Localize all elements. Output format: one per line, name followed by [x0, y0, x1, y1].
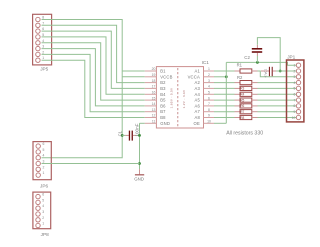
- svg-text:2: 2: [208, 73, 210, 77]
- svg-text:6: 6: [208, 96, 210, 100]
- pin names right: [188, 69, 201, 126]
- svg-text:B6: B6: [160, 103, 166, 108]
- svg-text:3: 3: [208, 79, 210, 83]
- resistor R5: [214, 98, 296, 102]
- capacitor C1 series (near JP1): [261, 67, 296, 76]
- svg-text:2: 2: [43, 165, 45, 169]
- pin numbers right: [207, 67, 211, 123]
- svg-text:19: 19: [152, 73, 156, 77]
- svg-text:1: 1: [43, 171, 45, 175]
- svg-text:IC1: IC1: [202, 60, 210, 65]
- resistor R6: [214, 104, 296, 108]
- svg-text:R5: R5: [240, 98, 244, 102]
- resistor R2: [214, 81, 296, 85]
- wire A1 jog to JP1 pin3: [258, 71, 297, 77]
- pin numbers left: [152, 67, 156, 123]
- svg-text:3: 3: [42, 210, 44, 214]
- svg-text:R4: R4: [240, 93, 244, 97]
- svg-text:9: 9: [208, 114, 210, 118]
- wire JP6.3 to GND node: [42, 163, 140, 165]
- svg-text:R7: R7: [240, 110, 244, 114]
- svg-text:2: 2: [42, 216, 44, 220]
- pin stubs right 1..10: [204, 70, 215, 72]
- svg-text:4: 4: [42, 39, 44, 43]
- svg-text:7: 7: [293, 98, 295, 102]
- svg-text:OE: OE: [194, 121, 200, 126]
- wire JP5.2 to IC B7: [42, 54, 145, 111]
- svg-text:17: 17: [152, 85, 156, 89]
- svg-text:3: 3: [293, 75, 295, 79]
- svg-text:B3: B3: [160, 86, 166, 91]
- wire OE pin10: [214, 122, 226, 124]
- svg-text:1: 1: [42, 56, 44, 60]
- svg-text:R6: R6: [240, 104, 244, 108]
- svg-text:VCCA: VCCA: [188, 74, 200, 79]
- svg-text:B4: B4: [160, 92, 166, 97]
- svg-text:4: 4: [43, 154, 45, 158]
- svg-text:1: 1: [42, 222, 44, 226]
- svg-text:B7: B7: [160, 109, 166, 114]
- svg-text:10: 10: [207, 120, 211, 124]
- node C2 to A1 junction: [279, 70, 282, 73]
- wire JP5.1 to IC B8: [42, 60, 145, 117]
- connector JP1: [287, 60, 304, 122]
- svg-text:10: 10: [292, 116, 296, 120]
- svg-text:GND: GND: [160, 121, 170, 126]
- svg-text:1.65V - 5.5V: 1.65V - 5.5V: [170, 87, 174, 108]
- svg-text:14: 14: [152, 102, 156, 106]
- svg-text:A4: A4: [194, 92, 200, 97]
- svg-text:JP1: JP1: [287, 55, 295, 60]
- wire JP5.7 to IC B2: [42, 25, 145, 82]
- svg-text:A1: A1: [194, 69, 200, 74]
- svg-text:12: 12: [152, 114, 156, 118]
- svg-text:3: 3: [43, 160, 45, 164]
- connector JP5: [33, 14, 52, 65]
- ground: [134, 169, 144, 181]
- svg-text:11: 11: [152, 120, 156, 124]
- svg-text:All resistors 330: All resistors 330: [226, 130, 263, 136]
- connector JP8: [33, 192, 51, 229]
- svg-text:15: 15: [152, 96, 156, 100]
- svg-text:B1: B1: [160, 69, 166, 74]
- wire GND vertical: [139, 123, 141, 169]
- capacitor C2: [252, 38, 280, 71]
- wire VCCA to junction: [214, 76, 226, 78]
- resistor R3: [214, 86, 296, 90]
- svg-text:5: 5: [42, 198, 44, 202]
- svg-text:R2: R2: [237, 75, 243, 80]
- svg-text:18: 18: [152, 79, 156, 83]
- svg-text:6: 6: [42, 193, 44, 197]
- svg-text:JP8: JP8: [41, 232, 49, 237]
- svg-text:JP6: JP6: [40, 183, 48, 188]
- IC U1 (IC1 level translator): [145, 67, 214, 128]
- svg-text:6: 6: [43, 142, 45, 146]
- svg-text:A7: A7: [194, 109, 200, 114]
- svg-text:2: 2: [293, 69, 295, 73]
- wire VCCB pin19: [122, 76, 145, 78]
- svg-text:VCCB: VCCB: [160, 74, 172, 79]
- svg-text:C2: C2: [244, 55, 250, 60]
- svg-text:R8: R8: [240, 116, 244, 120]
- svg-text:5: 5: [43, 148, 45, 152]
- wire into IC pin20: [122, 70, 145, 72]
- svg-text:7: 7: [42, 21, 44, 25]
- node GND junction JP6.3: [138, 162, 141, 165]
- svg-text:B5: B5: [160, 98, 166, 103]
- svg-text:1: 1: [208, 67, 210, 71]
- svg-text:5: 5: [293, 87, 295, 91]
- wire JP5.4 to IC B5: [42, 43, 145, 100]
- wire VCCA to JP1 pin1: [226, 62, 296, 65]
- connector JP6: [33, 142, 51, 180]
- resistor R8: [214, 115, 296, 119]
- node VCCB junction at C1: [121, 134, 124, 137]
- svg-text:A3: A3: [194, 86, 200, 91]
- pin names left: [160, 69, 172, 126]
- svg-text:C1: C1: [264, 68, 268, 72]
- svg-text:JP5: JP5: [40, 66, 48, 71]
- svg-text:4: 4: [293, 81, 295, 85]
- svg-text:1.2V - 3.6V: 1.2V - 3.6V: [182, 89, 186, 108]
- svg-text:13: 13: [152, 108, 156, 112]
- svg-text:4: 4: [208, 85, 210, 89]
- svg-text:3: 3: [42, 45, 44, 49]
- wire JP5.8 to IC B1 and down to JP6 (shared vertical): [42, 20, 123, 158]
- resistor R4: [214, 92, 296, 96]
- node C2 bottom junction: [256, 61, 259, 64]
- svg-text:A8: A8: [194, 115, 200, 120]
- svg-text:8: 8: [42, 16, 44, 20]
- wire JP5.5 to IC B4: [42, 37, 145, 94]
- svg-text:8: 8: [293, 104, 295, 108]
- svg-text:5: 5: [208, 91, 210, 95]
- wire JP5.3 to IC B6: [42, 49, 145, 106]
- svg-text:A5: A5: [194, 98, 200, 103]
- wire VCCA/OE vertical: [225, 62, 227, 123]
- svg-text:4: 4: [42, 204, 44, 208]
- svg-text:GND: GND: [134, 176, 144, 181]
- resistor R1: [214, 69, 258, 73]
- svg-text:A6: A6: [194, 103, 200, 108]
- capacitor C1: [122, 131, 139, 141]
- svg-text:6: 6: [42, 27, 44, 31]
- svg-text:R3: R3: [240, 87, 244, 91]
- svg-text:6: 6: [293, 93, 295, 97]
- svg-text:16: 16: [152, 91, 156, 95]
- svg-text:7: 7: [208, 102, 210, 106]
- svg-text:R1: R1: [237, 62, 243, 67]
- node VCCA junction: [225, 75, 228, 78]
- svg-text:A2: A2: [194, 80, 200, 85]
- wire JP5.6 to IC B3: [42, 31, 145, 88]
- svg-text:20: 20: [152, 67, 156, 71]
- svg-text:B8: B8: [160, 115, 166, 120]
- svg-text:8: 8: [208, 108, 210, 112]
- svg-text:C1: C1: [118, 130, 123, 136]
- divider dashed: [177, 68, 179, 127]
- svg-text:B2: B2: [160, 80, 166, 85]
- svg-text:9: 9: [293, 110, 295, 114]
- node C1 right junction: [138, 134, 141, 137]
- wire IC GND pin11: [140, 122, 145, 124]
- resistor R7: [214, 110, 296, 114]
- svg-text:1: 1: [293, 64, 295, 68]
- pin stubs left 20..11: [145, 71, 214, 123]
- svg-text:47p: 47p: [264, 72, 268, 77]
- svg-text:5: 5: [42, 33, 44, 37]
- svg-text:2: 2: [42, 50, 44, 54]
